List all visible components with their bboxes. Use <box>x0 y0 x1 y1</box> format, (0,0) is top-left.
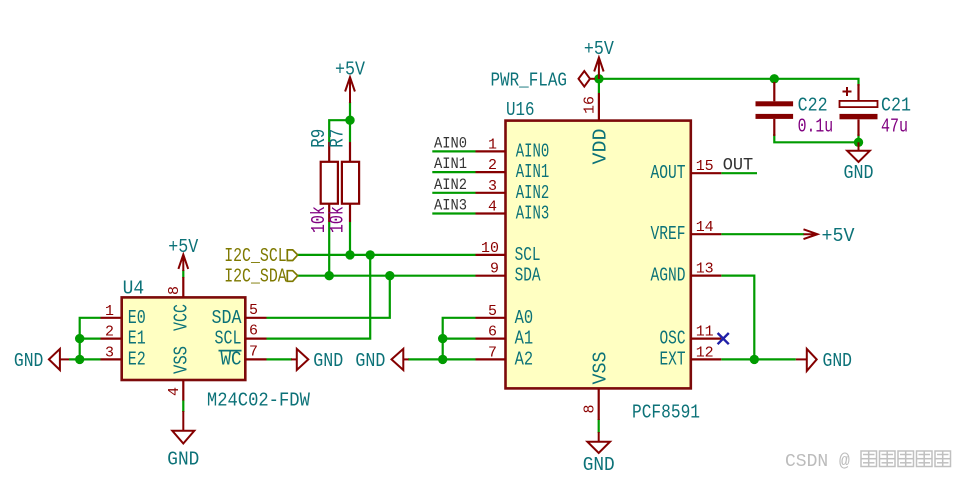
svg-text:A2: A2 <box>515 348 534 370</box>
svg-text:E2: E2 <box>128 348 146 370</box>
U16 pin 5 A0 <box>476 303 534 329</box>
capacitor C22 <box>756 82 834 138</box>
junction U16 A2 tie <box>438 355 447 364</box>
svg-text:2: 2 <box>105 324 114 341</box>
junction C22 top <box>770 74 779 83</box>
svg-text:8: 8 <box>581 405 598 414</box>
wire U4 VSS pin 4 to GND symbol <box>182 400 184 412</box>
wire AIN0 label stub <box>432 150 475 152</box>
U16 pin 8 VSS <box>581 352 611 421</box>
wire OUT label stub on pin 15 <box>721 172 757 174</box>
resistor R9 <box>308 129 338 233</box>
ground symbol GND (right of U4 WC, pointing right) <box>291 349 343 372</box>
svg-text:12: 12 <box>696 344 714 361</box>
svg-text:AIN1: AIN1 <box>516 161 550 183</box>
U4 pin 6 SCL <box>215 323 267 350</box>
svg-text:7: 7 <box>488 344 497 361</box>
wire GND to U16 A0 A1 A2 pins <box>408 318 476 360</box>
U16 pin 2 AIN1 <box>476 157 550 183</box>
U4 pin 5 SDA <box>212 302 267 329</box>
U16 pin 1 AIN0 <box>476 136 550 162</box>
svg-text:9: 9 <box>490 261 499 278</box>
wire U16 EXT pin 12 to GND symbol <box>721 358 796 360</box>
svg-text:7: 7 <box>249 343 258 360</box>
svg-text:GND: GND <box>313 350 343 372</box>
svg-text:CSDN @: CSDN @ <box>785 452 850 472</box>
power symbol +5V (above U4) <box>168 236 198 271</box>
svg-text:1: 1 <box>105 303 114 320</box>
U16 pin 7 A2 <box>476 344 534 370</box>
svg-text:2: 2 <box>488 157 497 174</box>
svg-text:SDA: SDA <box>212 307 242 329</box>
U4 pin 4 VSS <box>166 346 192 401</box>
svg-text:U4: U4 <box>123 278 145 300</box>
ground symbol GND (right of EXT, pointing right) <box>796 349 852 372</box>
svg-text:I2C_SDA: I2C_SDA <box>224 266 287 288</box>
svg-text:6: 6 <box>488 324 497 341</box>
ground symbol GND (left of U4, pointing left) <box>14 349 69 372</box>
power symbol PWR_FLAG <box>491 70 596 92</box>
svg-text:4: 4 <box>488 199 497 216</box>
wire AIN1 label stub <box>432 171 475 173</box>
svg-text:GND: GND <box>167 449 199 471</box>
junction SDA branch <box>385 271 394 280</box>
IC U4 body <box>122 297 246 380</box>
svg-text:VREF: VREF <box>651 223 686 245</box>
svg-text:U16: U16 <box>506 99 535 121</box>
svg-text:3: 3 <box>105 344 114 361</box>
watermark CJK glyph blocks <box>861 451 951 467</box>
svg-text:1: 1 <box>488 136 497 153</box>
U16 pin 9 SDA <box>476 261 541 287</box>
wire R9 bottom to I2C_SDA net <box>328 222 330 276</box>
U16 pin 12 EXT <box>660 344 722 370</box>
svg-text:SCL: SCL <box>515 244 541 266</box>
U4 pin 8 VCC <box>166 277 192 331</box>
svg-text:AIN1: AIN1 <box>434 155 467 173</box>
svg-text:GND: GND <box>583 454 615 476</box>
svg-text:+5V: +5V <box>335 59 365 81</box>
svg-text:OUT: OUT <box>723 155 754 175</box>
junction U16 A1 tie <box>438 334 447 343</box>
wire AIN3 label stub <box>432 212 475 214</box>
svg-text:13: 13 <box>696 261 714 278</box>
svg-text:47u: 47u <box>881 116 908 138</box>
svg-text:10: 10 <box>481 240 499 257</box>
svg-text:8: 8 <box>166 286 183 295</box>
U16 pin 11 OSC <box>660 324 722 350</box>
wire +5V rail to C21 top <box>599 79 859 86</box>
svg-text:AOUT: AOUT <box>651 162 686 184</box>
svg-text:A0: A0 <box>515 307 534 329</box>
svg-text:GND: GND <box>823 350 853 372</box>
svg-text:AIN2: AIN2 <box>434 176 467 194</box>
junction R9/R7 +5V node <box>345 116 354 125</box>
junction +5V / PWR_FLAG / VDD <box>594 74 603 83</box>
junction SCL branch <box>366 250 375 259</box>
ground symbol GND (below C21) <box>844 142 874 184</box>
svg-text:0.1u: 0.1u <box>798 116 834 138</box>
no-connect X on pin 11 <box>718 333 729 344</box>
U4 pin 2 E1 <box>101 324 146 350</box>
wire PWR_FLAG node down to U16 VDD pin 16 <box>598 79 600 93</box>
svg-text:10k: 10k <box>327 206 349 233</box>
U16 pin 10 SCL <box>476 240 541 266</box>
U4 pin 7 WC (active low, overbar) <box>219 343 267 370</box>
svg-text:C21: C21 <box>881 95 911 117</box>
svg-text:5: 5 <box>488 303 497 320</box>
wire +5V symbol to U4 VCC pin 8 <box>182 270 184 278</box>
junction AGND / EXT <box>750 355 759 364</box>
svg-text:SCL: SCL <box>215 328 242 350</box>
wire U16 VREF pin 14 to +5V symbol <box>721 233 804 235</box>
svg-text:+5V: +5V <box>168 236 198 258</box>
svg-text:AIN3: AIN3 <box>516 203 550 225</box>
wire SDA branch down to U4 pin 5 <box>267 276 390 318</box>
wire U16 AGND pin 13 down to EXT net <box>721 276 754 360</box>
svg-text:AIN3: AIN3 <box>434 197 467 215</box>
svg-text:+5V: +5V <box>584 38 614 60</box>
wire U16 VSS pin 8 to GND symbol <box>598 419 600 433</box>
svg-text:WC: WC <box>221 348 242 370</box>
svg-text:PWR_FLAG: PWR_FLAG <box>491 70 568 92</box>
svg-text:OSC: OSC <box>660 328 686 350</box>
svg-text:C22: C22 <box>798 95 828 117</box>
junction C21 bottom / GND <box>854 138 863 147</box>
power symbol +5V (top, above U16) <box>584 38 614 79</box>
wire AIN2 label stub <box>432 192 475 194</box>
U16 pin 3 AIN2 <box>476 178 550 204</box>
svg-text:E0: E0 <box>128 307 146 329</box>
wire C22 bottom to C21 bottom <box>774 134 858 142</box>
wire U4 E0 E1 E2 tie to GND <box>69 318 101 360</box>
wire node to R7 top <box>349 120 351 142</box>
wire U4 WC pin 7 to GND symbol <box>267 358 293 360</box>
junction U4 E2 tie <box>75 355 84 364</box>
svg-text:15: 15 <box>696 158 714 175</box>
svg-text:PCF8591: PCF8591 <box>632 402 700 424</box>
wire R7 bottom to I2C_SCL net <box>349 222 351 255</box>
svg-text:6: 6 <box>249 323 258 340</box>
ground symbol GND (below U4 VSS) <box>167 411 199 471</box>
svg-text:M24C02-FDW: M24C02-FDW <box>207 389 310 411</box>
svg-text:A1: A1 <box>515 328 534 350</box>
svg-text:EXT: EXT <box>660 348 686 370</box>
U16 pin 4 AIN3 <box>476 199 550 225</box>
resistor R7 <box>327 129 360 233</box>
U16 pin 6 A1 <box>476 324 534 350</box>
svg-text:AIN2: AIN2 <box>516 182 550 204</box>
wire SCL branch down to U4 pin 6 <box>267 255 371 339</box>
watermark CSDN <box>785 452 850 472</box>
U16 pin 13 AGND <box>651 261 722 287</box>
U16 pin 16 VDD <box>582 93 612 165</box>
hierarchical label I2C_SDA <box>224 266 298 288</box>
svg-text:4: 4 <box>166 387 183 396</box>
U16 pin 15 AOUT <box>651 158 722 184</box>
svg-text:11: 11 <box>696 324 714 341</box>
ground symbol GND (below U16 VSS) <box>583 432 615 476</box>
wire +5V symbol to R9/R7 top node <box>349 102 351 120</box>
svg-text:VCC: VCC <box>170 304 192 331</box>
U4 pin 3 E2 <box>101 344 146 370</box>
svg-text:+5V: +5V <box>822 225 855 247</box>
svg-text:R7: R7 <box>327 129 349 148</box>
junction R9 / I2C_SDA <box>325 271 334 280</box>
IC U16 body <box>506 121 691 389</box>
svg-text:AIN0: AIN0 <box>434 135 467 153</box>
svg-text:GND: GND <box>355 350 385 372</box>
svg-text:AIN0: AIN0 <box>516 140 550 162</box>
svg-text:GND: GND <box>844 162 874 184</box>
wire I2C_SDA bus to U16 pin 9 <box>298 275 476 277</box>
svg-text:16: 16 <box>582 96 599 114</box>
wire node to R9 top <box>329 120 350 142</box>
svg-text:5: 5 <box>249 302 258 319</box>
wire I2C_SCL bus to U16 pin 10 <box>298 254 476 256</box>
ground symbol GND (left of U16 A-pins, pointing left) <box>355 349 408 372</box>
svg-text:VSS: VSS <box>590 352 612 385</box>
power symbol +5V (above R9/R7) <box>335 59 365 104</box>
capacitor C21 (polarized) <box>840 84 912 138</box>
svg-text:AGND: AGND <box>651 265 686 287</box>
U4 pin 1 E0 <box>101 303 146 329</box>
svg-text:VDD: VDD <box>590 129 612 165</box>
U16 pin 14 VREF <box>651 219 722 245</box>
svg-text:GND: GND <box>14 350 44 372</box>
svg-text:SDA: SDA <box>515 265 541 287</box>
svg-text:3: 3 <box>488 178 497 195</box>
junction U4 E1 tie <box>75 334 84 343</box>
svg-text:VSS: VSS <box>170 346 192 374</box>
junction R7 / I2C_SCL <box>345 250 354 259</box>
power symbol +5V (right of VREF, pointing right) <box>804 225 855 247</box>
svg-text:I2C_SCL: I2C_SCL <box>224 245 287 267</box>
svg-text:14: 14 <box>696 219 714 236</box>
hierarchical label I2C_SCL <box>224 245 298 267</box>
svg-text:E1: E1 <box>128 328 146 350</box>
